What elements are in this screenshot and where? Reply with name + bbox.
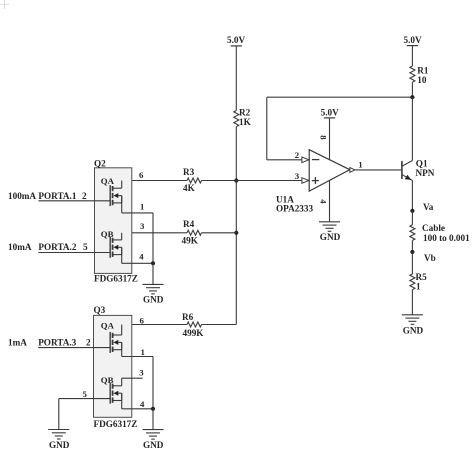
wire PORTA.1 to gate Q2 QA xyxy=(38,200,110,202)
transistor Q2 box xyxy=(94,158,138,283)
wire bus top xyxy=(235,46,237,111)
svg-text:3: 3 xyxy=(140,221,145,231)
svg-text:1: 1 xyxy=(141,347,145,357)
svg-text:PORTA.2: PORTA.2 xyxy=(38,242,76,252)
wire PORTA.3 to gate Q3 QA xyxy=(38,347,110,349)
svg-text:10mA: 10mA xyxy=(8,242,32,252)
pin 3 stub Q3 xyxy=(122,377,143,379)
svg-text:Vb: Vb xyxy=(424,253,436,263)
svg-text:4: 4 xyxy=(318,199,328,204)
wire Va to cable resistor xyxy=(411,211,413,225)
ground Q2 xyxy=(143,284,164,304)
svg-text:Cable: Cable xyxy=(422,223,445,233)
svg-text:GND: GND xyxy=(49,440,70,450)
wire bus middle xyxy=(235,127,237,325)
wire R6 row pin6 Q3 to bus corner xyxy=(122,324,237,326)
svg-text:4K: 4K xyxy=(183,183,196,193)
wire op-amp output to Q1 base xyxy=(355,169,401,171)
svg-text:1mA: 1mA xyxy=(8,337,27,347)
resistor R4 xyxy=(182,219,202,245)
op-amp U1A xyxy=(276,150,355,214)
svg-text:4: 4 xyxy=(139,252,144,262)
svg-text:5.0V: 5.0V xyxy=(404,35,422,45)
svg-text:GND: GND xyxy=(403,325,424,335)
mosfet Q3 QB xyxy=(110,378,122,409)
node bus/R3 junction xyxy=(234,178,238,182)
svg-text:Q3: Q3 xyxy=(94,305,106,315)
node feedback junction xyxy=(410,95,414,99)
svg-text:3: 3 xyxy=(295,171,300,181)
svg-text:6: 6 xyxy=(139,170,144,180)
svg-text:Q1: Q1 xyxy=(416,159,428,169)
node Va xyxy=(410,209,414,213)
mosfet Q3 QA xyxy=(110,325,122,357)
wire R1 to node xyxy=(411,82,413,97)
svg-text:Q2: Q2 xyxy=(94,158,106,168)
svg-text:100mA: 100mA xyxy=(8,191,36,201)
input label PORTA.2 xyxy=(8,242,88,252)
resistor R1 xyxy=(410,65,429,85)
svg-text:R1: R1 xyxy=(417,65,429,75)
node Q2 pin4 junction xyxy=(151,261,155,265)
wire op-amp V- to ground xyxy=(329,181,331,222)
svg-text:PORTA.3: PORTA.3 xyxy=(38,337,76,347)
transistor Q3 box xyxy=(94,305,138,429)
power 5.0V (op-amp) xyxy=(321,107,339,118)
svg-text:R4: R4 xyxy=(183,219,195,229)
svg-text:QA: QA xyxy=(101,321,115,331)
ground Q3 pin4 xyxy=(143,430,164,450)
svg-text:49K: 49K xyxy=(182,235,199,245)
svg-text:1: 1 xyxy=(358,159,362,169)
sheet border corner mark xyxy=(0,0,9,9)
svg-text:5.0V: 5.0V xyxy=(321,107,339,117)
svg-text:8: 8 xyxy=(318,135,328,140)
svg-text:GND: GND xyxy=(320,232,341,242)
pin 1 wire Q2 xyxy=(122,213,153,263)
svg-text:GND: GND xyxy=(143,295,164,305)
svg-text:GND: GND xyxy=(143,440,164,450)
wire Q3 pin4 to ground xyxy=(152,409,154,430)
resistor R3 xyxy=(183,167,201,193)
wire R4 row pin3 Q2 to bus xyxy=(122,232,236,234)
node Vb xyxy=(410,250,414,254)
resistor R5 xyxy=(410,272,427,291)
svg-text:FDG6317Z: FDG6317Z xyxy=(94,273,138,283)
ground Q3 pin5 xyxy=(48,430,69,450)
svg-text:QA: QA xyxy=(101,176,115,186)
svg-text:QB: QB xyxy=(101,229,114,239)
node Q3 pin4 junction xyxy=(151,407,155,411)
svg-text:2: 2 xyxy=(82,191,87,201)
svg-text:4: 4 xyxy=(140,399,145,409)
svg-text:6: 6 xyxy=(140,315,145,325)
svg-text:100 to 0.001: 100 to 0.001 xyxy=(423,233,470,243)
transistor Q1 xyxy=(402,159,435,181)
wire PORTA.2 to gate Q2 QB xyxy=(38,252,110,254)
mosfet Q2 QB xyxy=(110,233,122,263)
wire Q1 emitter to Va xyxy=(411,181,413,211)
resistor R6 xyxy=(182,312,204,338)
wire right column top xyxy=(411,46,413,66)
node bus/R4 junction xyxy=(234,231,238,235)
svg-text:499K: 499K xyxy=(183,328,205,338)
svg-text:1: 1 xyxy=(140,202,144,212)
svg-text:10: 10 xyxy=(417,75,427,85)
resistor Cable xyxy=(410,223,470,243)
svg-text:R3: R3 xyxy=(183,167,195,177)
svg-text:Va: Va xyxy=(423,202,434,212)
wire Vb to R5 xyxy=(411,252,413,274)
svg-text:5: 5 xyxy=(83,389,88,399)
ground right column xyxy=(402,315,424,336)
svg-text:PORTA.1: PORTA.1 xyxy=(38,191,76,201)
wire R3 row pin6 Q2 to opamp pin3 xyxy=(122,180,302,182)
svg-text:FDG6317Z: FDG6317Z xyxy=(94,419,138,429)
power 5.0V (right) xyxy=(404,35,422,45)
svg-text:1K: 1K xyxy=(239,117,252,127)
wire Q2 pin4 to ground xyxy=(152,263,154,284)
svg-text:5.0V: 5.0V xyxy=(227,35,245,45)
pin 4 wire Q3 xyxy=(122,408,153,410)
wire node to Q1 collector xyxy=(411,97,413,160)
input label PORTA.3 xyxy=(8,337,91,347)
svg-text:2: 2 xyxy=(86,337,91,347)
ground U1A xyxy=(319,222,341,242)
resistor R2 xyxy=(234,107,252,126)
pin 1 wire Q3 xyxy=(122,357,153,409)
pin 4 wire Q2 xyxy=(122,262,153,264)
mosfet Q2 QA xyxy=(110,181,122,213)
wire op-amp V+ xyxy=(329,118,331,160)
input label PORTA.1 xyxy=(8,191,87,201)
svg-text:1: 1 xyxy=(416,282,421,292)
wire cable to Vb xyxy=(411,240,413,252)
power 5.0V (main bus) xyxy=(227,35,245,46)
svg-text:R6: R6 xyxy=(182,312,194,322)
svg-text:OPA2333: OPA2333 xyxy=(276,204,313,214)
svg-text:3: 3 xyxy=(139,367,144,377)
svg-text:5: 5 xyxy=(83,242,88,252)
svg-text:2: 2 xyxy=(295,150,300,160)
wire feedback loop xyxy=(267,97,413,160)
wire R5 to ground xyxy=(411,290,413,315)
wire pin 5 to gate Q3 QB xyxy=(59,399,110,430)
svg-text:NPN: NPN xyxy=(416,168,435,178)
